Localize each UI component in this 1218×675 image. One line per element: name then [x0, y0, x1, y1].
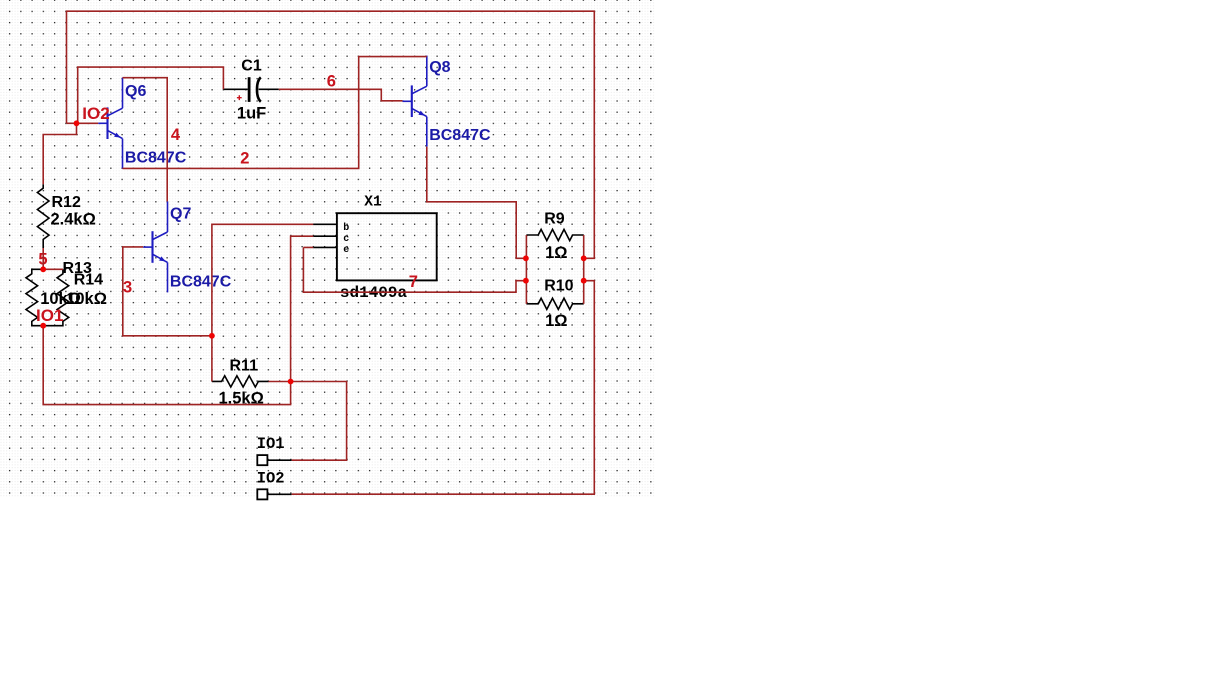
- wire: Q8 emitter to R9 left node: [427, 147, 526, 259]
- svg-text:R14: R14: [74, 272, 103, 289]
- wire: net 4 Q6 collector to Q7 collector: [123, 78, 168, 202]
- transistor Q8 (NPN BC847C): [403, 56, 427, 147]
- svg-text:7: 7: [409, 273, 418, 291]
- wire: R11 right lead to node: [269, 381, 291, 383]
- svg-text:1Ω: 1Ω: [545, 312, 567, 330]
- wire: R11 node to port IO1: [291, 382, 347, 461]
- wire: IO2 node down to R12: [43, 123, 76, 184]
- junction dot R10 left: [523, 278, 529, 284]
- port IO2 square: [257, 489, 267, 499]
- svg-text:IO1: IO1: [36, 306, 63, 325]
- resistor R12: [37, 184, 49, 248]
- resistor R14: [43, 269, 68, 325]
- svg-text:R10: R10: [544, 278, 573, 295]
- capacitor C1: [223, 77, 278, 102]
- wire: Q7 base loop to node 3: [123, 247, 212, 336]
- junction dot R10 right: [581, 278, 587, 284]
- wire: IO2 upper vertical to C1 line: [78, 67, 224, 123]
- svg-text:2.4kΩ: 2.4kΩ: [51, 210, 96, 228]
- wire: IO2 dot to loop stub: [67, 122, 77, 124]
- svg-text:R11: R11: [230, 358, 259, 375]
- svg-text:c: c: [343, 234, 349, 245]
- resistor R11: [212, 376, 269, 387]
- svg-text:b: b: [343, 222, 349, 234]
- junction dot IO2 node: [74, 120, 80, 126]
- resistor R13: [26, 269, 43, 325]
- svg-text:3: 3: [123, 278, 132, 296]
- svg-text:R9: R9: [544, 210, 565, 227]
- junction dot R11 right node: [288, 379, 294, 385]
- svg-text:X1: X1: [364, 194, 382, 210]
- wire: net 6 C1 to Q8 base: [279, 89, 403, 101]
- svg-text:BC847C: BC847C: [170, 273, 232, 290]
- C1 polarity plus: [237, 95, 242, 100]
- resistor R9: [526, 229, 583, 240]
- transistor Q6 (NPN BC847C): [98, 78, 122, 169]
- resistor R10: [526, 298, 583, 309]
- svg-text:Q7: Q7: [170, 206, 191, 223]
- wire: R9/R10 right connecting vertical: [583, 235, 585, 304]
- junction dot R9 right: [581, 255, 587, 261]
- svg-text:IO2: IO2: [257, 469, 285, 487]
- wire: net 2 Q6 emitter to Q8 collector: [123, 57, 427, 169]
- wire: net c vertical to X1 pin c: [291, 236, 314, 381]
- junction dot node 5: [40, 266, 46, 272]
- port IO1 square: [257, 455, 267, 465]
- wire: R12 bottom to node 5: [42, 248, 44, 269]
- junction dot R9 left: [523, 255, 529, 261]
- port IO2 lead: [267, 493, 291, 495]
- svg-text:C1: C1: [241, 57, 262, 74]
- wire: node 5 to R14 top: [43, 268, 63, 270]
- svg-text:10kΩ: 10kΩ: [66, 290, 107, 308]
- wire: net 7 X1 pin e to R10 left node: [303, 247, 526, 292]
- svg-text:e: e: [343, 245, 349, 256]
- svg-text:Q6: Q6: [125, 83, 146, 100]
- svg-text:2: 2: [240, 150, 249, 168]
- port IO1 lead: [267, 459, 291, 461]
- svg-text:Q8: Q8: [429, 59, 450, 76]
- schematic grid area: [0, 0, 656, 498]
- wire: R9/R10 left connecting vertical: [525, 235, 527, 304]
- svg-text:IO1: IO1: [257, 435, 285, 453]
- svg-text:6: 6: [327, 72, 336, 90]
- X1 pin b line: [313, 223, 337, 225]
- svg-text:BC847C: BC847C: [125, 149, 187, 166]
- svg-text:R12: R12: [52, 194, 81, 211]
- svg-text:IO2: IO2: [82, 104, 109, 123]
- svg-text:1uF: 1uF: [237, 105, 266, 123]
- X1 pin e line: [313, 246, 337, 248]
- wire: IO2 big loop (left vertical, top, right vertical to R9 right dot): [67, 11, 595, 258]
- svg-text:1Ω: 1Ω: [545, 244, 567, 262]
- junction dot node 3: [209, 333, 215, 339]
- svg-text:BC847C: BC847C: [429, 127, 491, 144]
- svg-text:4: 4: [171, 126, 181, 144]
- wire: node 3 down to R11 left lead: [211, 336, 213, 382]
- wire: IO1 node down and across to R11 right node: [43, 326, 290, 405]
- wire: R10 right node to bottom loop and port IO2: [292, 281, 595, 495]
- subcircuit X1 box sd1409a: [337, 213, 437, 280]
- X1 pin c line: [313, 235, 337, 237]
- wire: net 3/b vertical to X1 pin b: [212, 224, 313, 335]
- transistor Q7 (NPN BC847C): [143, 201, 167, 292]
- wire: IO2 node to Q6 base: [77, 122, 99, 124]
- junction dot IO1 node: [40, 323, 46, 329]
